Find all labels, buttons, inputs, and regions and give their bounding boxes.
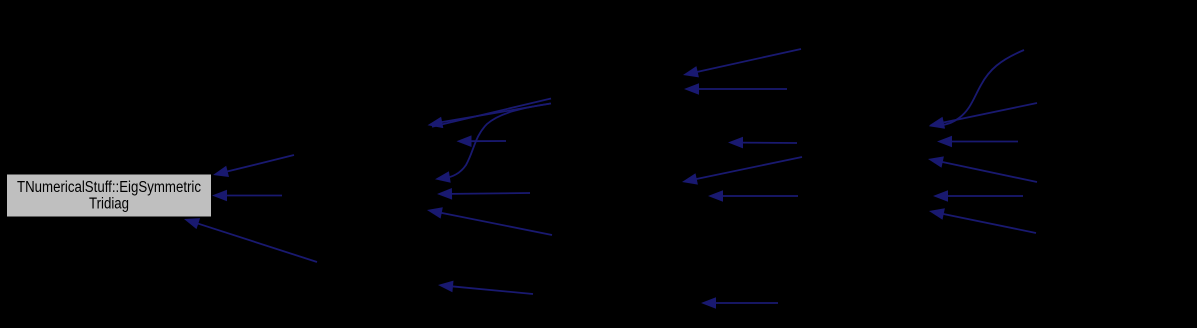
edge c5b -> c4 node1 [929,103,1037,128]
edge c4f -> c3 node3 [701,297,778,309]
svg-text:TNumericalStuff::EigSymmetric: TNumericalStuff::EigSymmetric [17,179,201,196]
edge c5 curve -> c4 node1 (S-curve) [929,50,1024,129]
edge c3d -> caller2 [427,207,552,235]
edge c4c -> c3 node2 [728,137,797,149]
edge c3a -> caller1 (line b) [428,104,551,129]
node TNumericalStuff::EigSymmetricTridiag [7,174,212,217]
edge c4d -> c3 node2 [682,157,802,185]
edge c3a -> caller1 (line a) [432,99,551,127]
edge c5e -> c4 node2 [933,190,1023,202]
edge caller3 -> EigSymmetricTridiag [184,218,317,262]
edge c3e -> caller3 [438,281,533,294]
edge c4b -> c3 node1 [684,83,787,95]
edge c3 curve -> caller2 (S-curve) [435,104,551,183]
edge caller2 -> EigSymmetricTridiag [212,190,282,202]
edge c3c -> caller2 [437,188,530,200]
edge c5c -> c4 node1 [937,136,1018,148]
edge c5d -> c4 node2 [928,156,1037,182]
edge c3b -> caller2 short [457,135,507,147]
edge caller1 -> EigSymmetricTridiag [213,155,294,177]
edge c4e -> c3 node2 [708,190,798,202]
svg-text:Tridiag: Tridiag [89,196,129,213]
edge c5f -> c4 node2 [929,208,1036,233]
edge c4a -> c3 node1 [683,49,801,77]
